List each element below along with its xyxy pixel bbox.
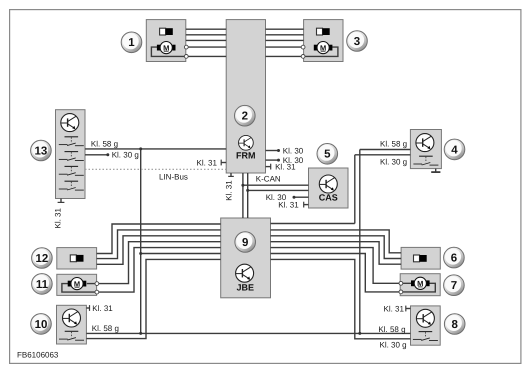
svg-text:10: 10 [35,319,48,331]
svg-text:Kl. 31: Kl. 31 [384,304,405,313]
svg-text:8: 8 [451,319,458,331]
svg-text:CAS: CAS [319,192,338,202]
svg-text:Kl. 58 g: Kl. 58 g [92,324,119,333]
svg-text:FB6106063: FB6106063 [17,351,59,360]
svg-text:3: 3 [354,36,360,48]
svg-text:12: 12 [36,253,49,265]
svg-text:6: 6 [451,253,457,265]
svg-text:LIN-Bus: LIN-Bus [159,173,188,182]
svg-text:7: 7 [451,280,457,292]
svg-text:Kl. 31: Kl. 31 [197,158,218,167]
svg-text:4: 4 [451,144,458,156]
svg-text:9: 9 [242,237,248,249]
svg-text:1: 1 [128,37,135,49]
svg-text:5: 5 [324,149,331,161]
svg-text:Kl. 30: Kl. 30 [283,146,304,155]
svg-text:Kl. 30 g: Kl. 30 g [380,340,407,349]
svg-text:Kl. 30 g: Kl. 30 g [112,151,139,160]
svg-text:Kl. 58 g: Kl. 58 g [380,139,407,148]
svg-text:11: 11 [36,279,49,291]
svg-text:Kl. 31: Kl. 31 [54,207,63,228]
svg-text:Kl. 31: Kl. 31 [278,200,299,209]
svg-text:JBE: JBE [236,282,254,292]
svg-text:Kl. 31: Kl. 31 [92,304,113,313]
svg-text:Kl. 31: Kl. 31 [225,180,234,201]
svg-text:FRM: FRM [236,151,256,161]
svg-text:Kl. 58 g: Kl. 58 g [91,140,118,149]
svg-text:Kl. 31: Kl. 31 [275,162,296,171]
svg-text:13: 13 [35,145,48,157]
svg-text:Kl. 58 g: Kl. 58 g [378,325,405,334]
svg-text:2: 2 [242,111,248,123]
svg-text:Kl. 30 g: Kl. 30 g [380,157,407,166]
svg-text:K-CAN: K-CAN [256,175,281,184]
